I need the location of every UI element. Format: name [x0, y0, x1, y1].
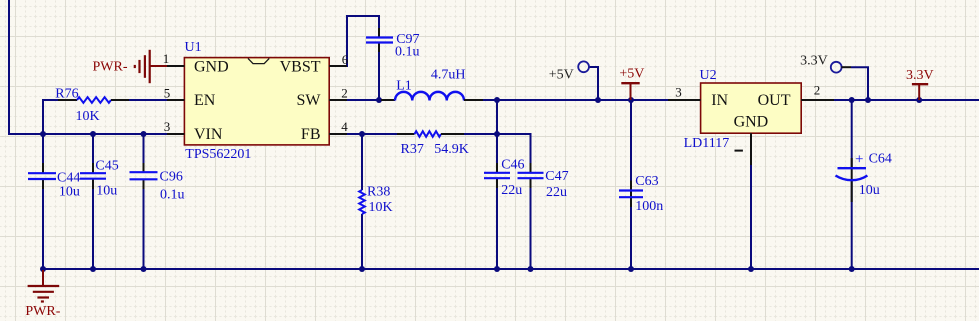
pin 4 (U1 FB): [329, 133, 347, 135]
node: FB-R38 junction: [359, 131, 365, 137]
svg-text:3: 3: [164, 119, 171, 134]
node: +5V circle junction: [595, 97, 601, 103]
wire: left vertical input: [8, 0, 10, 135]
node: +5V bar / C63 junction: [628, 97, 634, 103]
pin 5 (U1 EN): [167, 99, 184, 101]
svg-text:3: 3: [675, 85, 682, 100]
node: SW-C97 junction: [376, 97, 382, 103]
capacitor C97: [366, 28, 420, 60]
svg-text:3.3V: 3.3V: [906, 68, 934, 83]
wire: VIN horizontal rail: [8, 133, 167, 135]
svg-text:+5V: +5V: [619, 67, 644, 82]
svg-text:54.9K: 54.9K: [434, 142, 469, 157]
resistor R37: [397, 131, 469, 157]
wire: VBST loop: [347, 16, 379, 67]
svg-text:0.1u: 0.1u: [395, 45, 420, 60]
svg-text:0.1u: 0.1u: [160, 188, 185, 203]
wire: EN to R76: [129, 99, 167, 101]
svg-text:R76: R76: [55, 87, 78, 102]
svg-text:C64: C64: [869, 152, 892, 167]
wire: R37 right to C47 corner: [464, 134, 531, 173]
wire: C47 lower branch: [530, 178, 532, 270]
wire: +5V circle port stem: [589, 67, 598, 101]
svg-text:4.7uH: 4.7uH: [431, 68, 466, 83]
power port 3.3V (circle): [800, 54, 851, 73]
node: VIN-R76 junction: [40, 131, 46, 137]
svg-text:L1: L1: [396, 79, 412, 94]
node: OUT-3.3V circle junction: [865, 97, 871, 103]
svg-text:6: 6: [342, 52, 349, 67]
svg-text:IN: IN: [711, 92, 728, 109]
wire: OUT line to right edge: [834, 99, 979, 101]
svg-text:R38: R38: [367, 185, 390, 200]
svg-text:R37: R37: [401, 142, 424, 157]
svg-text:10u: 10u: [59, 185, 80, 200]
svg-text:LD1117: LD1117: [684, 136, 730, 151]
pin 3 (U2 IN): [668, 99, 701, 101]
svg-text:U1: U1: [185, 40, 202, 55]
svg-text:OUT: OUT: [758, 92, 791, 109]
node: OUT-3.3V bar junction: [916, 97, 922, 103]
svg-text:22u: 22u: [546, 185, 567, 200]
power port 3.3V (bar): [906, 68, 934, 100]
svg-text:22u: 22u: [501, 183, 522, 198]
capacitor C46: [484, 158, 525, 199]
svg-text:1: 1: [163, 51, 170, 66]
capacitor C47: [518, 163, 569, 200]
wire: VOUT vertical SW to FB rail: [496, 100, 498, 134]
svg-text:C63: C63: [635, 174, 658, 189]
wire: C96 branch: [143, 134, 145, 172]
node: ground rail C64: [849, 266, 855, 272]
svg-text:PWR-: PWR-: [93, 60, 128, 75]
IC U2 LD1117: [684, 68, 802, 152]
svg-text:5: 5: [164, 86, 171, 101]
wire: C97 bottom to SW: [378, 43, 380, 102]
wire: R38 branch: [361, 134, 363, 190]
node: ground rail C44: [40, 266, 46, 272]
node: ground rail C63: [628, 266, 634, 272]
svg-text:3.3V: 3.3V: [800, 54, 828, 69]
power port PWR- at U1 pin 1: [93, 50, 168, 83]
pin 1 (U1 GND): [167, 65, 184, 67]
svg-text:4: 4: [341, 119, 348, 134]
wire: U2 GND down to rail: [750, 165, 752, 270]
node: ground rail U2 GND: [748, 266, 754, 272]
IC U1 TPS562201: [184, 40, 329, 162]
capacitor C64 (polarized): [836, 152, 892, 203]
node: ground rail C96: [141, 266, 147, 272]
node: ground rail C46: [494, 266, 500, 272]
node: ground rail R38: [359, 266, 365, 272]
wire: C45 branch: [92, 134, 94, 173]
pin 2 (U2 OUT): [801, 99, 834, 101]
wire: L1 to U2 IN: [483, 99, 668, 101]
node: ground rail C45: [90, 266, 96, 272]
svg-text:+5V: +5V: [549, 68, 574, 83]
pin 2 (U1 SW): [329, 99, 347, 101]
node: VOUT-FB divider junction: [494, 131, 500, 137]
svg-text:10K: 10K: [369, 200, 393, 215]
capacitor C45: [80, 159, 119, 199]
svg-text:10u: 10u: [859, 183, 880, 198]
svg-text:+: +: [855, 152, 863, 168]
inductor L1: [381, 68, 483, 101]
svg-text:C44: C44: [57, 171, 80, 186]
svg-text:EN: EN: [194, 92, 216, 109]
node: VIN-C45 junction: [90, 131, 96, 137]
node: ground rail C47: [528, 266, 534, 272]
svg-text:C47: C47: [545, 169, 568, 184]
capacitor C96: [130, 163, 185, 203]
svg-text:2: 2: [341, 86, 348, 101]
node: VOUT-C46 junction: [494, 97, 500, 103]
svg-text:10K: 10K: [76, 109, 100, 124]
pin 6 (U1 VBST): [329, 65, 347, 67]
wire: R76 left branch down to VIN rail: [43, 100, 58, 135]
capacitor C63: [619, 174, 663, 214]
svg-text:2: 2: [814, 83, 821, 98]
svg-text:VBST: VBST: [280, 59, 321, 76]
pin 1 (U2 GND): [750, 133, 752, 165]
svg-text:GND: GND: [194, 59, 229, 76]
wire: 3.3V circle port stem: [851, 67, 868, 101]
pin 3 (U1 VIN): [167, 133, 184, 135]
capacitor C44: [28, 163, 80, 200]
power port +5V (bar): [619, 67, 644, 101]
ground PWR- (bottom power ground): [25, 270, 60, 319]
wire: C64 branch: [851, 100, 853, 168]
wire: SW line to L1: [347, 99, 381, 101]
svg-text:U2: U2: [700, 68, 717, 83]
svg-text:VIN: VIN: [194, 126, 223, 143]
wire: C46 branch: [496, 134, 498, 173]
power port +5V (circle): [549, 61, 589, 82]
wire: FB line: [347, 133, 397, 135]
svg-text:C96: C96: [160, 170, 183, 185]
wire: bottom ground rail: [42, 268, 979, 270]
svg-text:GND: GND: [734, 114, 769, 131]
svg-text:100n: 100n: [635, 199, 663, 214]
resistor R76: [55, 87, 129, 125]
wire: C63 branch: [630, 100, 632, 191]
svg-text:PWR-: PWR-: [25, 304, 60, 319]
svg-text:C45: C45: [95, 159, 118, 174]
svg-text:10u: 10u: [96, 184, 117, 199]
svg-text:C46: C46: [501, 158, 524, 173]
node: OUT-C64 junction: [849, 97, 855, 103]
svg-text:FB: FB: [301, 126, 321, 143]
wire: C44 branch: [42, 134, 44, 173]
node: VIN-C96 junction: [141, 131, 147, 137]
svg-text:TPS562201: TPS562201: [185, 147, 251, 162]
resistor R38: [359, 185, 392, 216]
svg-text:SW: SW: [297, 92, 322, 109]
